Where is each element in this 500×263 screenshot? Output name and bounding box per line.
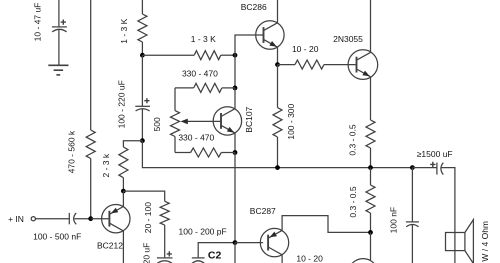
plus sign of 1500 uF cap <box>430 162 435 167</box>
node E junction (330-470 bottom / BC107 emitter) <box>233 150 238 155</box>
wire BC286 emitter to node C <box>277 47 279 64</box>
resistor 1-3K vertical <box>138 14 147 42</box>
resistor 100-300 <box>273 108 282 137</box>
wire 10-20 to 2N3055 base <box>324 64 356 66</box>
node M junction (100nF) <box>410 165 415 170</box>
svg-text:330 - 470: 330 - 470 <box>182 69 218 79</box>
svg-text:1 - 3 K: 1 - 3 K <box>119 18 129 43</box>
resistor 330-470 upper <box>194 83 222 92</box>
capacitor C2 (bottom cut) <box>192 258 205 263</box>
svg-text:BC107: BC107 <box>244 106 254 132</box>
input terminal +IN <box>31 217 35 221</box>
svg-text:100 - 300: 100 - 300 <box>286 103 296 139</box>
wire node A to 1-3K horizontal resistor <box>142 54 194 56</box>
svg-text:BC287: BC287 <box>250 206 276 216</box>
capacitor x20 uF (polarized, bottom cut) <box>157 258 173 263</box>
wire node C to 100-300 resistor <box>277 65 279 108</box>
resistor 2-3k <box>119 147 128 178</box>
node L junction (lower output device) <box>368 230 373 235</box>
node F junction (feedback node) <box>140 138 145 143</box>
svg-text:100 nF: 100 nF <box>388 207 398 233</box>
wire output rail to 0.3-0.5 lower <box>370 168 372 185</box>
wire node G to 20-100 resistor <box>123 191 164 201</box>
wire 100-300 to output rail <box>277 137 279 168</box>
plus sign of 100-220 uF cap <box>144 98 149 103</box>
wire 1500uF to speaker <box>442 168 455 233</box>
transistor BC212 <box>102 205 130 233</box>
wire BC107 emitter to node E <box>234 133 236 152</box>
svg-text:100 - 500 nF: 100 - 500 nF <box>33 232 81 242</box>
svg-text:2 - 3 k: 2 - 3 k <box>101 153 111 177</box>
wire V+ to 1-3K vertical resistor <box>141 0 143 14</box>
capacitor ≥1500 uF output (polarized) <box>437 163 443 175</box>
wire node E down to BC287 base node (crosses output rail) <box>234 153 236 243</box>
wire 0.3-0.5 upper to output rail <box>370 148 372 168</box>
node I junction (BC287 base) <box>233 240 238 245</box>
svg-text:+ IN: + IN <box>8 214 24 224</box>
wire 330-470 upper leads <box>222 87 235 89</box>
wire node F to 2-3k resistor <box>123 141 142 147</box>
svg-text:0.3 - 0.5: 0.3 - 0.5 <box>348 124 358 155</box>
wire output rail to 1500uF cap <box>412 167 437 169</box>
wire node I to BC287 base <box>235 242 263 244</box>
potentiometer wiper arrow to BC107 base <box>187 120 221 122</box>
capacitor 10-47 uF (polarized, to ground) <box>52 27 67 65</box>
resistor 330-470 lower <box>191 148 222 157</box>
wire node A down to 100-220uF cap <box>141 55 143 106</box>
svg-text:BC212: BC212 <box>97 240 123 250</box>
svg-text:≥1500 uF: ≥1500 uF <box>417 149 453 159</box>
wire V+ rail stub to decoupling cap <box>58 0 60 27</box>
wire BC107 collector <box>234 88 236 109</box>
wire 330-470 lower to node E <box>221 152 235 154</box>
svg-text:470 - 560 k: 470 - 560 k <box>66 130 76 173</box>
svg-text:10 - 20: 10 - 20 <box>296 254 323 263</box>
wire 470-560k to BC212 base node <box>90 159 92 219</box>
wire 20-100 to 20uF cap <box>164 225 166 257</box>
wire BC286 collector to V+ <box>277 0 279 23</box>
wire 2-3k to node G <box>122 178 124 191</box>
svg-text:BC286: BC286 <box>241 2 267 12</box>
wire BC287 emitter to output node <box>282 216 370 233</box>
speaker <box>446 220 474 263</box>
resistor 1-3K horizontal <box>194 51 221 60</box>
transistor BC286 <box>256 21 284 49</box>
transistor BC107 <box>213 107 241 135</box>
wire 0.3-0.5 lower to node L <box>370 213 372 232</box>
wire 1-3K to node A <box>141 42 143 55</box>
svg-text:W / 4 Ohm: W / 4 Ohm <box>480 221 490 262</box>
wire left rail to potentiometer <box>174 88 176 111</box>
svg-text:500: 500 <box>152 117 162 131</box>
svg-text:330 - 470: 330 - 470 <box>178 133 214 143</box>
node A junction <box>140 53 145 58</box>
wire node B to BC107 collector node <box>234 55 236 88</box>
resistor 0.3-0.5 lower <box>366 185 375 213</box>
node G junction (BC212 emitter) <box>121 189 126 194</box>
wire BC212 collector to negative rail <box>122 231 124 263</box>
wire node H to BC212 base <box>91 218 110 220</box>
svg-text:20 uF: 20 uF <box>141 243 151 263</box>
svg-text:1 - 3 K: 1 - 3 K <box>191 34 216 44</box>
wire 2N3055 emitter to 0.3-0.5 resistor <box>370 77 372 120</box>
node B junction <box>233 53 238 58</box>
svg-text:0.3 - 0.5: 0.3 - 0.5 <box>348 186 358 217</box>
svg-text:10 - 47 uF: 10 - 47 uF <box>33 3 43 42</box>
capacitor 100 nF <box>406 222 419 263</box>
plus sign of 20 uF cap <box>167 251 172 256</box>
transistor 2N3055 <box>348 50 378 80</box>
node J junction on output rail <box>275 165 280 170</box>
svg-text:100 - 220 uF: 100 - 220 uF <box>117 80 127 128</box>
svg-text:10 - 20: 10 - 20 <box>292 44 319 54</box>
wire 2N3055 collector to V+ <box>370 0 372 52</box>
transistor BC287 <box>260 228 288 256</box>
node H junction (BC212 base) <box>88 216 93 221</box>
wire BC287 base node to C2 <box>198 243 235 258</box>
capacitor 100-500 nF input coupling <box>69 213 90 224</box>
wire 1-3K to node B <box>221 54 235 56</box>
resistor 10-20 upper <box>295 60 324 69</box>
svg-text:100 - 200 pF: 100 - 200 pF <box>178 226 226 236</box>
wire node I to negative rail <box>234 243 236 263</box>
node K junction (emitter resistors) <box>368 165 373 170</box>
wire node C to 10-20 resistor <box>278 64 296 66</box>
svg-text:C2: C2 <box>208 249 222 261</box>
node C junction <box>275 62 280 67</box>
wire BC287 collector to negative rail <box>281 254 283 263</box>
transistor lower 2N3055 (cut at bottom) <box>348 259 378 263</box>
capacitor 100-220 uF (polarized) <box>135 106 150 140</box>
potentiometer 500 <box>171 111 180 137</box>
svg-text:2N3055: 2N3055 <box>333 34 363 44</box>
wire node B to BC286 base <box>235 35 264 55</box>
wire V+ to 470-560k resistor <box>90 0 92 130</box>
node D junction (330-470 top / BC107 collector) <box>233 86 238 91</box>
ground symbol <box>48 65 68 75</box>
resistor 0.3-0.5 upper <box>366 120 375 148</box>
wire node L to lower 2N3055 collector <box>370 232 372 260</box>
resistor 20-100 <box>160 201 169 225</box>
wire node M to 100nF cap <box>411 168 413 222</box>
wire input terminal to coupling cap <box>35 218 69 220</box>
plus sign of 10-47 uF cap <box>61 20 66 25</box>
wire potentiometer to 330-470 lower <box>174 137 176 153</box>
resistor 470-560k <box>86 130 95 159</box>
wire BC212 emitter to node G <box>122 191 124 207</box>
wire node F to output rail <box>142 141 412 168</box>
svg-text:20 - 100: 20 - 100 <box>143 202 153 233</box>
